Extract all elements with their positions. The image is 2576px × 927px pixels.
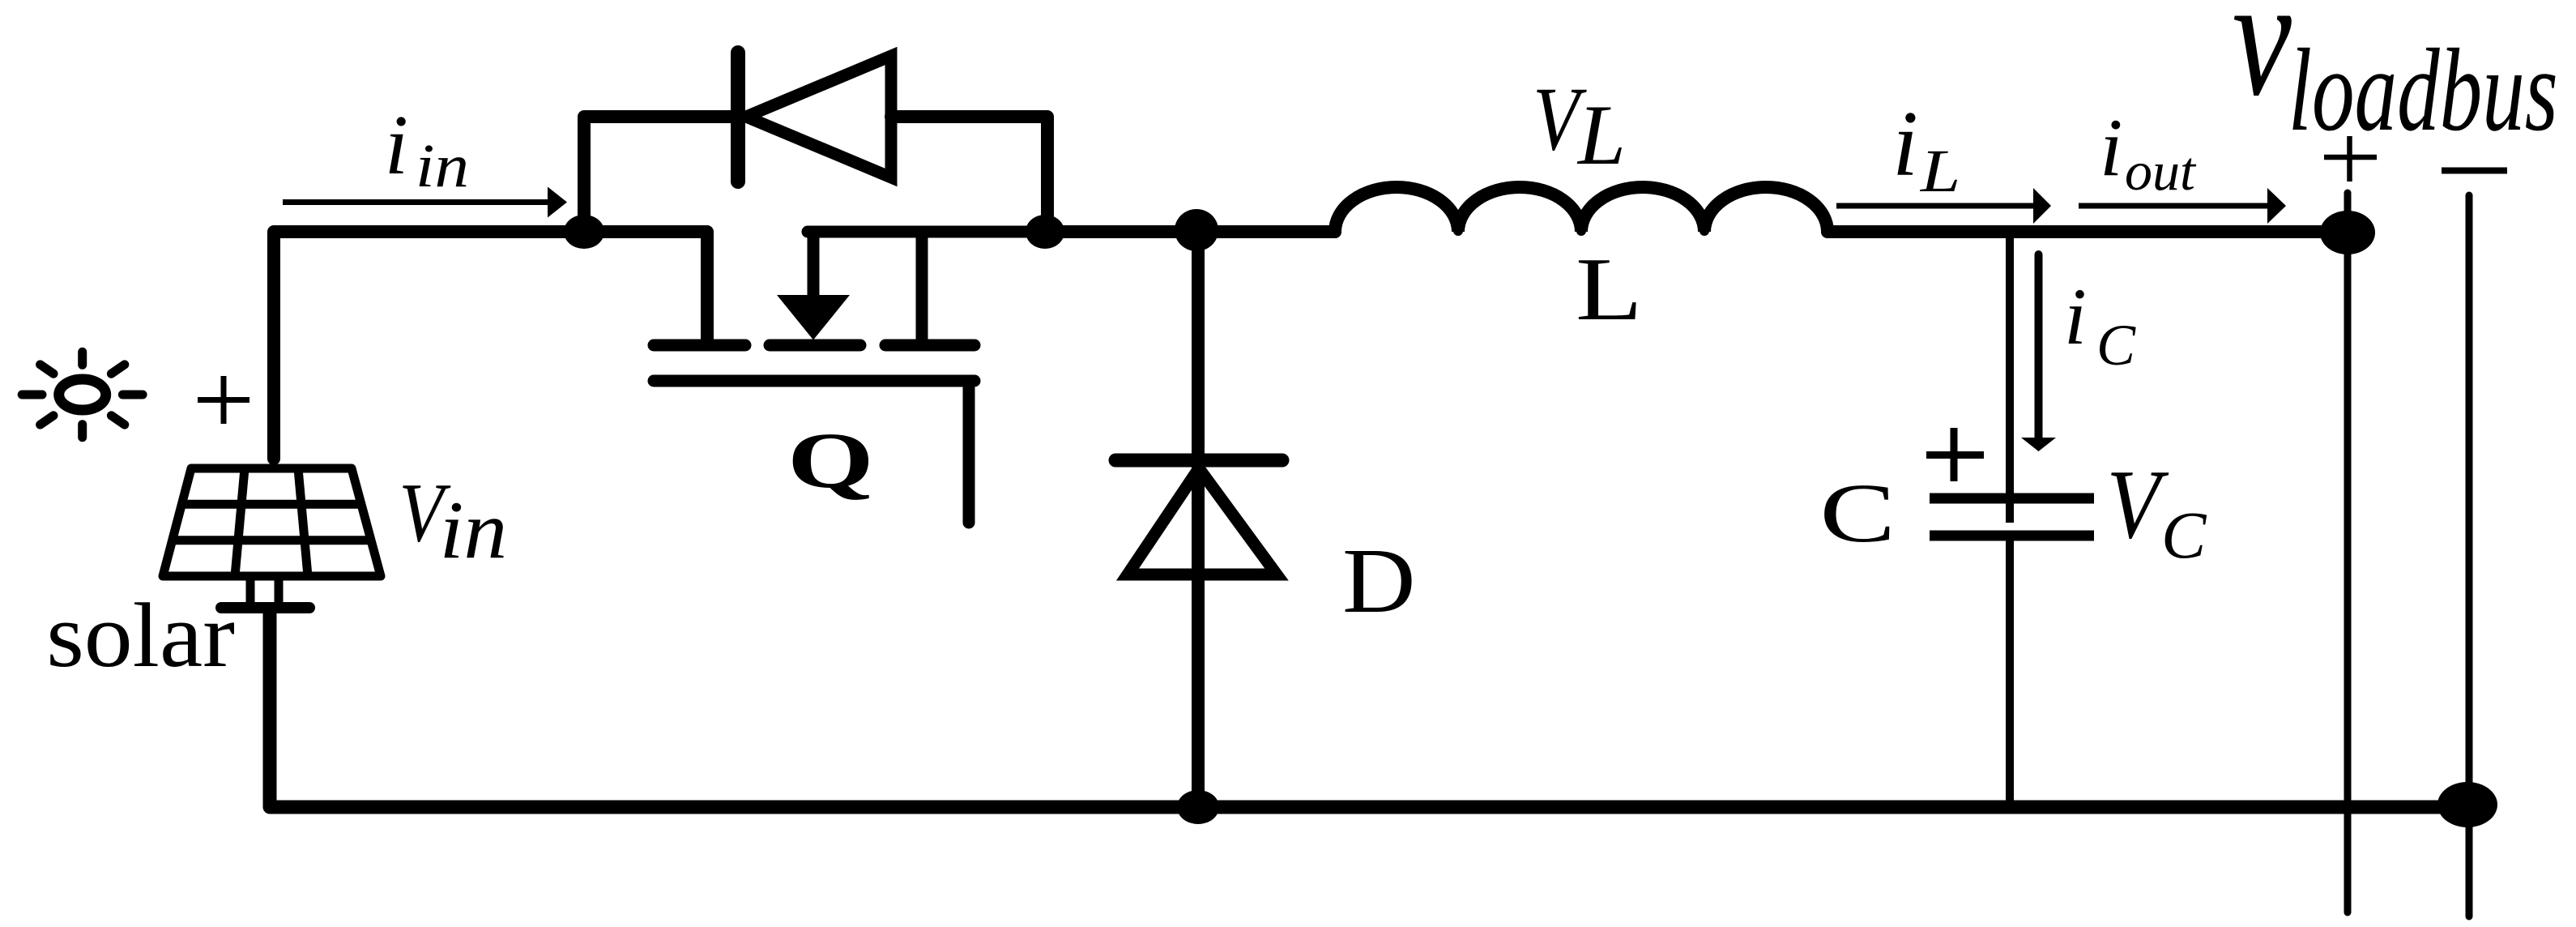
svg-text:in: in [416, 132, 469, 200]
svg-text:C: C [2096, 313, 2136, 378]
svg-text:V: V [2106, 449, 2169, 558]
svg-text:L: L [1576, 88, 1626, 182]
svg-text:v: v [2233, 0, 2292, 131]
svg-text:in: in [440, 485, 508, 576]
svg-text:loadbus: loadbus [2288, 24, 2558, 156]
svg-text:solar: solar [46, 585, 235, 686]
svg-text:Q: Q [787, 417, 874, 505]
svg-text:i: i [2064, 271, 2087, 361]
svg-text:C: C [2161, 498, 2207, 572]
svg-text:D: D [1342, 529, 1416, 632]
svg-text:i: i [385, 97, 408, 192]
svg-text:C: C [1819, 466, 1896, 559]
svg-text:out: out [2125, 140, 2197, 202]
svg-text:i: i [2100, 102, 2122, 194]
svg-text:L: L [1576, 239, 1643, 339]
svg-text:L: L [1920, 137, 1960, 204]
svg-text:i: i [1892, 92, 1918, 195]
